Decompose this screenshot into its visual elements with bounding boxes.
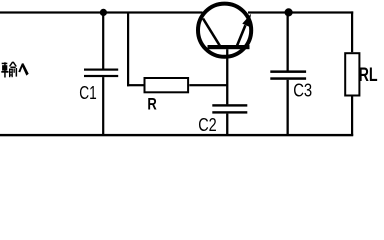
wire R to base line — [189, 84, 227, 86]
wire C1 bottom vertical — [102, 77, 104, 135]
svg-text:R: R — [147, 96, 156, 114]
capacitor C1 — [79, 69, 118, 104]
svg-text:C3: C3 — [293, 81, 312, 101]
wire RL bottom vertical — [351, 96, 353, 135]
resistor RL — [345, 53, 378, 95]
capacitor C3 — [270, 70, 312, 100]
俞 body 月 — [9, 69, 10, 78]
wire C1 top vertical — [102, 12, 104, 68]
svg-text:RL: RL — [359, 65, 378, 86]
label 输入 (input) drawn as strokes — [1, 62, 28, 78]
wire top-left horizontal (input top rail to transistor) — [0, 11, 203, 13]
输 left radical 车 — [2, 63, 8, 64]
node junction dot at C3 — [285, 8, 293, 16]
transistor Q1 — [198, 4, 251, 57]
svg-text:C1: C1 — [79, 83, 97, 103]
输 right part 俞 roof — [9, 62, 14, 67]
入 — [18, 63, 24, 72]
俞 right 刂 — [14, 68, 15, 72]
wire C3 bottom vertical — [287, 80, 289, 136]
wire branch from top rail down to R — [127, 12, 144, 86]
svg-text:C2: C2 — [198, 115, 217, 135]
node junction dot at C1 — [100, 9, 107, 16]
wire bottom rail — [0, 134, 353, 136]
wire top-right corner drop to RL — [351, 11, 353, 52]
wire base/emitter vertical down to C2 — [226, 49, 228, 104]
wire C3 top vertical — [287, 12, 289, 70]
wire top-right horizontal (transistor to RL corner) — [248, 11, 353, 13]
capacitor C2 — [198, 104, 247, 135]
wire C2 bottom vertical — [226, 114, 228, 136]
resistor R — [145, 78, 189, 114]
